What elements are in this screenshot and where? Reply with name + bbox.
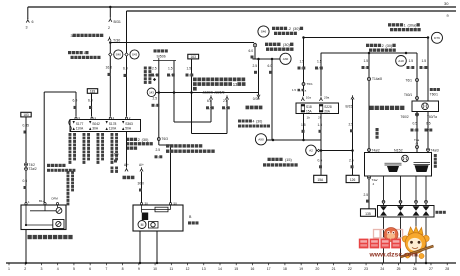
svg-text:2: 2 [108, 26, 110, 30]
svg-text:A/+: A/+ [124, 163, 129, 167]
svg-text:/: / [189, 74, 190, 78]
wire 6.0 red down to node A90 [271, 59, 273, 140]
label 16.0 blue [106, 66, 113, 77]
fuse pins 10a 29a [301, 96, 329, 101]
svg-text:T2a/2: T2a/2 [29, 167, 37, 171]
wire B/15 down to label 126 [352, 99, 354, 176]
label box 183 left wire [21, 112, 31, 117]
svg-text:15: 15 [234, 267, 238, 271]
svg-text:2.5: 2.5 [349, 123, 354, 127]
connection D76 [432, 32, 443, 43]
label 30 (top right) [444, 1, 449, 6]
svg-text:2.5: 2.5 [349, 159, 354, 163]
wire 0.5 black to label 15A [320, 151, 322, 176]
wire D+ from box 183 to alternator [25, 117, 27, 205]
svg-text:S177: S177 [76, 122, 84, 126]
wire A2 rail to B/15 wire [321, 149, 354, 152]
svg-text:0/30: 0/30 [253, 97, 260, 101]
label flow pump T60/3 [430, 88, 440, 96]
connection S46 [258, 26, 269, 37]
svg-text:/: / [365, 66, 366, 70]
connection A90 [255, 134, 266, 145]
svg-text:0.5: 0.5 [413, 122, 418, 126]
label box 183 on wire [87, 89, 97, 94]
label 0.5 brown/blue [411, 122, 419, 133]
terminal arrow T/30 [108, 37, 120, 43]
svg-text:4: 4 [253, 120, 255, 124]
connector T14a/8 [367, 77, 382, 81]
wire alternator ground [25, 230, 27, 265]
svg-text:1.5: 1.5 [318, 123, 323, 127]
watermark url text [369, 252, 418, 259]
svg-text:30.0: 30.0 [138, 182, 145, 186]
svg-text:6.0: 6.0 [123, 67, 128, 71]
connector T4a/2 [368, 148, 380, 152]
svg-text:/: / [410, 66, 411, 70]
svg-text:2.5: 2.5 [153, 97, 158, 101]
svg-text:/: / [428, 129, 429, 133]
fuse box S177/S042/S178/S363 [69, 116, 141, 132]
label ignition switch S/50b [154, 49, 168, 58]
svg-text:10a: 10a [306, 96, 311, 100]
label 6.0 red/black [206, 99, 214, 110]
fuse S40 [109, 50, 123, 59]
wire fuse S228 output to A2 node [320, 114, 323, 152]
svg-text:30A: 30A [92, 127, 99, 131]
svg-text:27: 27 [429, 267, 433, 271]
fuse pins 1b 29 [307, 115, 322, 119]
svg-text:1.5: 1.5 [317, 60, 322, 64]
svg-text:/: / [155, 104, 156, 108]
svg-text:T6/1: T6/1 [307, 82, 313, 86]
svg-text:S363: S363 [125, 122, 133, 126]
svg-text:1.5: 1.5 [301, 123, 306, 127]
wire feed to node 30 rail [253, 48, 281, 61]
svg-text:A10: A10 [398, 59, 404, 63]
svg-text:T60/1: T60/1 [404, 93, 412, 97]
wire start signal down to starter 50 [159, 93, 171, 204]
svg-text:/: / [158, 155, 159, 159]
battery terminal A/+ arrows [124, 163, 144, 171]
label 1.5 red/black [167, 66, 175, 77]
svg-text:13: 13 [202, 267, 206, 271]
svg-text:T60/7a: T60/7a [427, 115, 437, 119]
svg-text:20: 20 [315, 267, 319, 271]
node junction on bus 30 at x=110 [109, 6, 112, 18]
label 16.0 red [112, 153, 119, 163]
label a (right end of bus 30a) [447, 14, 450, 18]
label 2.5 brown [364, 193, 370, 203]
label 1.5 white/yellow [298, 60, 306, 71]
label battery [123, 176, 135, 180]
wire ECU feed [368, 53, 370, 153]
relay J226 description text [193, 78, 246, 91]
connection node 143 [147, 88, 156, 97]
label engine control unit [370, 106, 405, 110]
svg-text:(30): (30) [142, 138, 149, 142]
terminal arrow B/31 [108, 18, 121, 30]
svg-text:/: / [423, 66, 424, 70]
svg-text:/: / [210, 106, 211, 110]
svg-text:11: 11 [169, 267, 173, 271]
svg-text:0.5: 0.5 [318, 159, 323, 163]
svg-text:2.5: 2.5 [152, 66, 157, 70]
svg-text:B/31: B/31 [114, 20, 121, 24]
svg-text:16: 16 [250, 267, 254, 271]
svg-text:(30): (30) [293, 27, 300, 31]
svg-text:-2: -2 [288, 27, 291, 31]
fuse S43 [125, 50, 139, 59]
svg-text:2: 2 [138, 138, 140, 142]
svg-text:15A: 15A [317, 178, 324, 182]
svg-text:1.5: 1.5 [187, 66, 192, 70]
label 2.5 red/black mid [152, 97, 160, 108]
svg-text:1.5: 1.5 [409, 59, 414, 63]
svg-text:143: 143 [149, 90, 154, 94]
wire 6.0 white to fuse box [91, 93, 93, 116]
svg-text:/: / [171, 74, 172, 78]
svg-text:5: 5 [73, 267, 75, 271]
svg-text:S178: S178 [109, 122, 117, 126]
wire 2.5 red/black start signal [158, 61, 160, 93]
wire pump feed left [416, 53, 418, 101]
label 1.5 yellow [318, 123, 323, 133]
svg-text:T60/2: T60/2 [401, 115, 409, 119]
connector T4/2 T2a/2 [25, 163, 37, 171]
label positive connection (30) dash [265, 42, 294, 51]
connector T4a/4 [414, 138, 420, 149]
terminal arrow B/15 [346, 95, 355, 108]
svg-text:S43: S43 [132, 53, 138, 57]
svg-text:9: 9 [138, 267, 140, 271]
svg-text:www.dzsc.com: www.dzsc.com [369, 252, 418, 259]
label fuse holder 2 (30) battery box text [126, 138, 153, 150]
wire to label 135 [368, 179, 370, 209]
label 0/30 ignition switch [246, 97, 263, 109]
wire battery positive to fuse box [126, 132, 128, 168]
svg-text:50: 50 [174, 201, 178, 205]
label 2.5 red/black lower [155, 148, 163, 159]
wire pump feed right from D76 node [427, 38, 429, 102]
wire starter ground 2 [156, 231, 158, 264]
pin T4a/1 bottom [368, 176, 378, 186]
label 2.5 red/black upper [151, 66, 159, 77]
label positive connection -2 (30) relay box [272, 27, 303, 35]
svg-text:13: 13 [233, 82, 238, 87]
connection A10 [396, 56, 407, 67]
svg-text:S46: S46 [261, 30, 267, 34]
label box 135 [361, 209, 376, 217]
wire fuse S18 output [303, 114, 305, 141]
label 0.6 blue [23, 179, 28, 189]
wire battery to starter 30 [141, 172, 143, 204]
spark plug box [378, 206, 435, 218]
wire 16.0 blue from T/30 to fuse box [109, 43, 111, 117]
label terminal connector near starter [47, 164, 75, 172]
connector T6/1 pump [406, 79, 419, 83]
svg-text:6: 6 [32, 20, 34, 24]
svg-text:(30): (30) [283, 42, 291, 47]
watermark mascot monkey [401, 227, 434, 259]
svg-text:1.5: 1.5 [422, 59, 427, 63]
label 6.0 red feed [249, 49, 254, 59]
svg-text:110A: 110A [76, 127, 84, 131]
wire pump out right [427, 112, 429, 153]
label connector brown text [166, 144, 215, 153]
svg-text:18: 18 [283, 267, 287, 271]
fuse box S18 S228 [296, 103, 339, 114]
svg-text:6.0: 6.0 [207, 99, 212, 103]
svg-text:2: 2 [24, 267, 26, 271]
label manual transmission vehicles (vertical) [144, 67, 156, 84]
wire node 143 horizontal rail [156, 91, 259, 94]
svg-text:6.0: 6.0 [249, 49, 254, 53]
svg-text:2: 2 [382, 44, 384, 48]
svg-text:23: 23 [364, 267, 368, 271]
wire starter ground 1 [139, 231, 141, 264]
svg-text:26: 26 [413, 267, 417, 271]
svg-text:/: / [155, 74, 156, 78]
label spark plugs [436, 211, 446, 214]
label generator and voltage regulator [28, 235, 73, 239]
svg-text:110A: 110A [109, 127, 117, 131]
svg-text:S042: S042 [92, 122, 100, 126]
svg-text:29a: 29a [324, 96, 329, 100]
svg-text:163: 163 [191, 55, 197, 59]
svg-text:28: 28 [445, 267, 449, 271]
terminal arrow 6/3 (left end of bus 30) [26, 18, 34, 29]
label 1.5 white/black [407, 59, 415, 70]
wire bus to fuse S18 [302, 36, 305, 96]
pump pins T60/2 T60/7a [401, 113, 438, 119]
svg-text:N152: N152 [394, 148, 403, 152]
label connector (vertical) [376, 128, 379, 139]
svg-text:30: 30 [444, 1, 449, 6]
svg-text:0.5: 0.5 [426, 122, 431, 126]
label 2.5 red/black relay [222, 99, 230, 110]
ground rail [6, 263, 456, 265]
label 2.5 black lower [349, 159, 354, 169]
label 30.0 black [138, 182, 145, 192]
svg-text:14: 14 [218, 267, 222, 271]
svg-text:T60/1: T60/1 [430, 92, 438, 96]
label 1.5 white/violet [315, 60, 323, 71]
fuse box description columns (vertical text) [67, 133, 119, 205]
svg-text:183: 183 [23, 113, 29, 117]
svg-text:126: 126 [350, 178, 356, 182]
label 1.5 red/black 2 [186, 66, 194, 77]
label positive connection 1 (30a) engine bay [388, 23, 421, 31]
wire bus 30 (top horizontal) [28, 7, 456, 19]
label 1.5 red [301, 123, 306, 133]
svg-text:/: / [414, 129, 415, 133]
svg-text:6.0: 6.0 [88, 99, 93, 103]
svg-text:20A: 20A [324, 109, 331, 113]
svg-text:3: 3 [40, 267, 42, 271]
svg-text:183: 183 [90, 90, 96, 94]
svg-text:6: 6 [89, 267, 91, 271]
svg-text:2.5: 2.5 [364, 193, 369, 197]
label N152 [394, 148, 403, 152]
svg-text:10: 10 [153, 267, 157, 271]
svg-text:T6/3: T6/3 [162, 137, 169, 141]
watermark red text weiku [359, 239, 401, 249]
wire 2.5 red to ignition switch [257, 59, 260, 99]
svg-text:1b: 1b [307, 115, 311, 119]
svg-text:/: / [301, 67, 302, 71]
label box 15A [314, 175, 327, 182]
svg-text:6.0: 6.0 [73, 99, 78, 103]
label T4a/3 [427, 148, 439, 152]
ground rail numbers [8, 267, 449, 271]
svg-text:T4a/2: T4a/2 [372, 148, 380, 152]
svg-text:(30): (30) [256, 120, 262, 124]
svg-text:(30a): (30a) [408, 24, 418, 28]
svg-text:12: 12 [186, 267, 190, 271]
svg-text:2.5: 2.5 [156, 148, 161, 152]
svg-text:7: 7 [105, 267, 107, 271]
svg-text:21: 21 [332, 267, 336, 271]
svg-text:1.5: 1.5 [292, 88, 296, 92]
svg-text:2.5: 2.5 [223, 99, 228, 103]
svg-text:M: M [141, 223, 144, 227]
svg-text:2.5: 2.5 [253, 64, 258, 68]
wire T/30 feed line [109, 41, 254, 44]
connector T6/3 [157, 137, 168, 141]
wire from box 163 [191, 59, 193, 93]
wire loop to relay J226 pin 8 [192, 93, 229, 134]
wire loop to relay J226 pin 6 [174, 93, 213, 123]
alternator C and voltage regulator box [21, 196, 66, 229]
svg-text:30: 30 [145, 201, 149, 205]
svg-text:S/50b: S/50b [157, 54, 166, 58]
label 2.5 red [253, 64, 258, 74]
svg-text:24: 24 [380, 267, 384, 271]
svg-text:T4/2: T4/2 [29, 163, 36, 167]
svg-text:50A: 50A [125, 127, 132, 131]
wire 6.0 from bus 30a down to fuse box [126, 11, 128, 117]
label positive connection (15) [263, 158, 298, 167]
wire positive 30 rail 2 [321, 52, 417, 55]
label rectifier connector text [68, 51, 101, 59]
wire bus 2 to fuse S228 [320, 53, 322, 96]
svg-text:3: 3 [26, 26, 28, 30]
svg-text:DFM: DFM [52, 196, 59, 200]
svg-text:135: 135 [365, 212, 371, 216]
svg-text:15A: 15A [306, 109, 313, 113]
wire bus 30a (second horizontal) [127, 10, 457, 12]
svg-text:6.0: 6.0 [268, 64, 273, 68]
svg-text:1: 1 [8, 267, 10, 271]
wire from alternator B+ to fuse box [44, 92, 76, 204]
svg-text:B1+: B1+ [39, 199, 45, 203]
svg-text:(15): (15) [285, 158, 292, 162]
svg-text:T4a/3: T4a/3 [431, 148, 439, 152]
svg-text:1.5: 1.5 [300, 60, 305, 64]
svg-text:1.5: 1.5 [364, 59, 369, 63]
svg-text:/: / [319, 67, 320, 71]
svg-text:16.0: 16.0 [106, 66, 113, 70]
svg-text:3: 3 [71, 34, 73, 38]
watermark ghost ball logo [384, 228, 398, 242]
svg-text:1: 1 [83, 51, 85, 55]
label box 163 [188, 54, 199, 59]
svg-text:T6/1: T6/1 [406, 79, 413, 83]
pump V relay box [412, 101, 439, 112]
watermark ghost text [374, 230, 403, 238]
ignition coil unit N152 box [365, 153, 432, 177]
svg-text:A/+: A/+ [139, 163, 144, 167]
label 6.0 black [73, 99, 78, 110]
label B starter [188, 215, 199, 225]
svg-text:/: / [226, 106, 227, 110]
spark plug ground wires [384, 217, 428, 264]
connector T6/1 [292, 82, 313, 92]
svg-text:1.5: 1.5 [168, 66, 173, 70]
svg-text:S40: S40 [116, 53, 122, 57]
label 0.5 green/blue [425, 122, 433, 133]
ignition switch bracket [153, 58, 176, 61]
svg-text:19: 19 [299, 267, 303, 271]
svg-text:1: 1 [404, 24, 406, 28]
svg-text:J226/6 J226/8: J226/6 J226/8 [203, 91, 225, 95]
svg-text:8: 8 [122, 267, 124, 271]
label 0.35 blue [23, 124, 30, 134]
svg-text:/4: /4 [416, 142, 419, 146]
svg-text:29: 29 [318, 115, 322, 119]
connection A30 [280, 53, 291, 64]
svg-text:B/15: B/15 [346, 105, 353, 109]
label positive connection 2 (30) dash [366, 44, 396, 52]
wire 1.5 red/black [173, 61, 175, 93]
svg-text:A2: A2 [309, 149, 313, 153]
svg-text:A30: A30 [283, 57, 289, 61]
svg-text:A90: A90 [258, 137, 264, 141]
label 1.5 white/violet 2 [362, 59, 370, 70]
svg-text:D76: D76 [434, 36, 440, 40]
svg-text:(30): (30) [386, 44, 393, 48]
svg-text:22: 22 [348, 267, 352, 271]
label box 126 [346, 175, 359, 182]
connection A2 [306, 145, 321, 156]
label 6.0 red 2 [268, 64, 273, 74]
wire pump out left [416, 112, 418, 153]
svg-text:T/30: T/30 [113, 39, 120, 43]
label 6.0 red [123, 67, 128, 78]
label 2.5 black upper [349, 123, 354, 133]
label 6.0 white [88, 99, 93, 110]
label J226/6 J226/8 [203, 91, 225, 95]
svg-text:0.6: 0.6 [23, 179, 28, 183]
label 1.5 red/black [420, 59, 428, 70]
wire positive 30 rail to D76 [304, 36, 430, 39]
label ignition coil (vertical) [434, 154, 437, 168]
svg-text:25: 25 [397, 267, 401, 271]
svg-text:16.0: 16.0 [112, 153, 119, 157]
label positive connection 4 (30) [238, 120, 270, 128]
svg-text:T14a/8: T14a/8 [372, 77, 382, 81]
connector phi on feed [253, 43, 256, 48]
label 3-contact relay text [71, 34, 104, 38]
label 0.5 black [318, 159, 323, 169]
starter B box [133, 201, 183, 231]
wire A90 rail [267, 139, 321, 142]
svg-text:17: 17 [267, 267, 271, 271]
spark plug wires [382, 176, 427, 206]
connector T60/1 [404, 93, 419, 100]
svg-text:4: 4 [57, 267, 59, 271]
